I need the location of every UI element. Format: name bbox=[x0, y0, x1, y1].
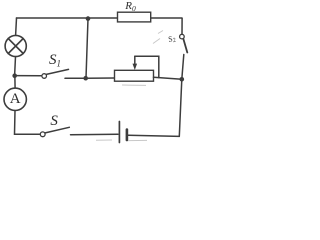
switch S1 bbox=[15, 69, 86, 78]
wire right vertical middle bbox=[182, 55, 184, 80]
wire top-left horizontal segment bbox=[17, 17, 118, 19]
wire left vertical: corner to lamp bbox=[15, 18, 18, 35]
ammeter A bbox=[4, 88, 26, 110]
svg-text:A: A bbox=[10, 91, 21, 107]
wire lamp to node bbox=[14, 57, 17, 74]
node rheostat junction bbox=[180, 77, 185, 82]
wire middle vertical bbox=[86, 19, 88, 78]
node top junction bbox=[86, 16, 91, 21]
wire right vertical lower bbox=[179, 79, 182, 136]
wire ammeter to bottom-left corner bbox=[15, 111, 41, 135]
lamp L bbox=[5, 35, 26, 56]
wire node to ammeter bbox=[14, 78, 16, 88]
faint scan artifacts bbox=[96, 31, 163, 141]
rheostat R bbox=[86, 56, 182, 81]
svg-text:R0: R0 bbox=[124, 0, 136, 13]
svg-text:S2: S2 bbox=[167, 33, 177, 45]
wire resistor-right to top-right corner bbox=[151, 17, 182, 19]
battery bbox=[119, 122, 179, 143]
resistor R0 bbox=[118, 12, 151, 22]
svg-text:S1: S1 bbox=[49, 52, 61, 69]
switch S bbox=[40, 127, 118, 136]
switch S2 bbox=[180, 18, 188, 52]
node lamp-ammeter junction bbox=[12, 73, 17, 78]
svg-text:S: S bbox=[50, 113, 58, 129]
node middle-bottom junction bbox=[83, 76, 88, 81]
